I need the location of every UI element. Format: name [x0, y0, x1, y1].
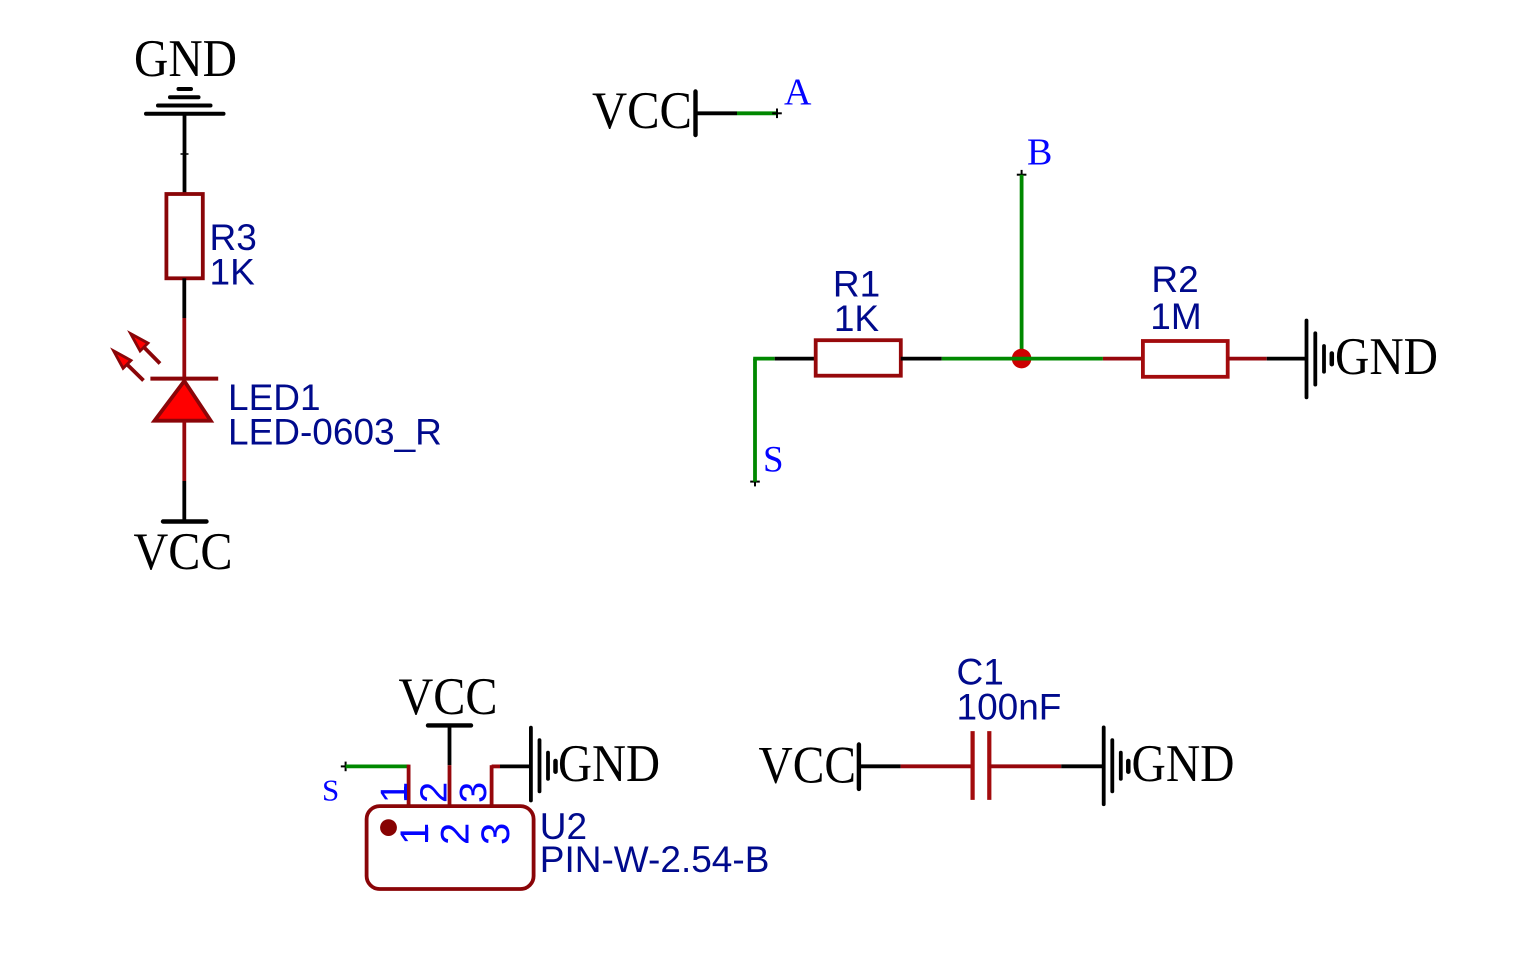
power VCC (below LED1): [134, 522, 233, 582]
svg-text:LED-0603_R: LED-0603_R: [228, 412, 442, 453]
node A: [772, 72, 812, 119]
svg-text:B: B: [1027, 132, 1052, 174]
pin name 1: [393, 823, 437, 845]
svg-text:A: A: [784, 72, 812, 114]
svg-text:3: 3: [453, 782, 495, 803]
wire (C1 to GND): [989, 764, 1103, 768]
wire (R3 to LED1): [182, 278, 186, 377]
svg-text:3: 3: [474, 823, 518, 845]
svg-text:VCC: VCC: [592, 82, 692, 140]
capacitor C1: [973, 731, 990, 800]
svg-text:GND: GND: [1132, 735, 1235, 793]
svg-text:S: S: [322, 773, 339, 808]
wire (LED1 to VCC): [182, 421, 186, 522]
wire (GND pin to R3): [181, 114, 189, 194]
wire (junction to R2): [1103, 357, 1143, 361]
wire (B to junction): [1020, 175, 1024, 359]
wire (R2 to GND): [1228, 357, 1307, 361]
wire (VCC to U2 pin 2): [448, 725, 452, 806]
ground GND (right of R2): [1307, 321, 1439, 398]
pin 1 of U2: [407, 765, 411, 807]
svg-text:VCC: VCC: [759, 737, 857, 795]
wire (U2 pin 3 to GND): [492, 765, 531, 806]
wire (R1 to junction): [901, 357, 1103, 361]
ground GND (right of C1): [1104, 727, 1235, 804]
svg-text:2: 2: [414, 782, 456, 803]
wire (VCC to node A): [696, 111, 778, 115]
svg-text:1: 1: [393, 823, 437, 845]
junction: [1012, 349, 1032, 369]
LED LED1: [114, 334, 219, 421]
svg-text:1K: 1K: [210, 252, 256, 293]
svg-text:100nF: 100nF: [957, 687, 1062, 728]
wire (VCC to C1): [859, 764, 973, 768]
resistor R3: [166, 194, 202, 278]
svg-text:GND: GND: [1335, 328, 1438, 386]
power VCC (left of C1): [759, 737, 859, 795]
wire (S vertical): [753, 359, 757, 482]
svg-text:GND: GND: [558, 735, 660, 793]
svg-text:1: 1: [374, 782, 416, 803]
ground GND (right of U2): [531, 728, 660, 801]
svg-text:1M: 1M: [1150, 296, 1201, 337]
power VCC (top middle): [592, 82, 696, 140]
node S (to U2 pin 1): [322, 762, 350, 808]
resistor R2: [1143, 341, 1228, 377]
resistor R1: [816, 340, 901, 376]
svg-text:R2: R2: [1151, 259, 1198, 300]
svg-text:S: S: [763, 440, 784, 481]
wire (S corner to R1): [753, 357, 816, 361]
wire (S to U2 pin 1): [346, 765, 409, 769]
ground GND (top-left earth symbol): [134, 30, 237, 114]
power VCC (above U2): [399, 668, 498, 726]
node S (divider): [750, 440, 783, 487]
svg-text:1K: 1K: [834, 298, 880, 339]
node B: [1017, 132, 1053, 180]
svg-text:VCC: VCC: [399, 668, 498, 726]
connector U2: [367, 806, 534, 889]
serif feet for digit 1 glyphs: [213, 283, 1168, 718]
svg-text:VCC: VCC: [134, 523, 233, 581]
svg-text:GND: GND: [134, 30, 237, 88]
svg-text:PIN-W-2.54-B: PIN-W-2.54-B: [540, 839, 770, 880]
svg-text:2: 2: [434, 823, 478, 845]
pin number 1: [374, 782, 416, 803]
